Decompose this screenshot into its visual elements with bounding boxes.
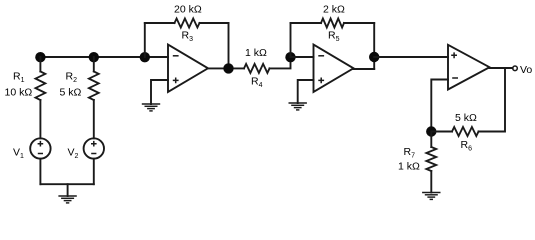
ground symbol sources <box>58 196 76 203</box>
resistor R2 <box>89 72 99 101</box>
resistor R5 <box>321 19 344 28</box>
output terminal circle <box>513 66 518 71</box>
op-amp U1 <box>168 45 208 93</box>
wire U3 output <box>490 67 513 69</box>
node B junction dot (top of R2) <box>89 52 99 62</box>
wire R1 top stub <box>39 57 41 72</box>
resistor R1 <box>36 72 46 101</box>
svg-text:R6: R6 <box>461 139 473 153</box>
junction dot R6/R7 node <box>426 126 436 136</box>
wire U1 feedback top right segment <box>200 22 229 24</box>
wire U2 output <box>354 68 375 70</box>
voltage source V2 <box>84 138 104 158</box>
wire V1 bottom to ground rail <box>39 159 41 185</box>
svg-text:5 kΩ: 5 kΩ <box>60 87 82 99</box>
svg-text:R5: R5 <box>328 30 340 44</box>
wire U3 inverting input <box>431 80 448 132</box>
svg-text:10 kΩ: 10 kΩ <box>5 87 33 99</box>
V1 minus sign <box>38 153 43 155</box>
wire U1 feedback left vertical <box>144 23 146 57</box>
wire U1 feedback top left segment <box>145 22 175 24</box>
resistor R7 <box>426 147 436 171</box>
U1 non-inverting input plus sign <box>173 78 179 84</box>
U3 non-inverting input plus sign <box>451 52 457 58</box>
ground symbol U2 <box>289 103 307 110</box>
wire R7 bottom to ground <box>430 171 432 193</box>
svg-text:Vo: Vo <box>520 64 532 76</box>
svg-text:5 kΩ: 5 kΩ <box>455 112 477 124</box>
V2 minus sign <box>91 153 96 155</box>
resistor R3 <box>175 19 200 28</box>
svg-text:R2: R2 <box>66 71 78 85</box>
wire R4 to U2 input corner <box>270 57 291 68</box>
wire U2 inverting input <box>291 56 314 58</box>
resistor R6 <box>452 127 479 136</box>
svg-text:R7: R7 <box>404 146 416 160</box>
ground symbol U1 <box>142 104 160 111</box>
op-amp U3 <box>448 45 490 90</box>
svg-text:1 kΩ: 1 kΩ <box>245 47 267 59</box>
U2 non-inverting input plus sign <box>318 78 324 84</box>
svg-text:2 kΩ: 2 kΩ <box>323 4 345 16</box>
wire U1 non-inverting input <box>151 80 168 104</box>
junction dot U2 output node <box>369 52 379 62</box>
junction dot feedback tap on U1 input rail <box>140 52 150 62</box>
wire source ground rail <box>40 183 93 185</box>
wire R1 bottom to V1 <box>39 100 41 138</box>
svg-text:V1: V1 <box>13 147 24 161</box>
ground symbol R7 <box>422 193 440 200</box>
wire U2 feedback left vertical <box>290 23 292 57</box>
op-amp U2 <box>314 45 354 93</box>
wire R2 top stub <box>93 57 95 72</box>
wire U2 output node to U3 non-inverting input <box>374 56 448 58</box>
U1 inverting input minus sign <box>173 55 179 57</box>
resistor R4 <box>244 64 270 73</box>
U2 inverting input minus sign <box>318 55 324 57</box>
wire R7 top stub <box>430 132 432 148</box>
svg-text:R4: R4 <box>251 75 263 89</box>
wire V2 bottom to ground rail <box>93 159 95 185</box>
wire U1 output to R4 <box>208 67 244 69</box>
svg-text:R1: R1 <box>13 71 25 85</box>
wire R6 left to node <box>431 131 452 133</box>
wire U1 feedback right vertical <box>228 23 230 68</box>
wire input rail node A to op-amp U1 inverting input <box>40 56 168 58</box>
svg-text:20 kΩ: 20 kΩ <box>174 4 202 16</box>
wire U2 feedback top left segment <box>291 22 322 24</box>
V2 plus sign <box>91 141 97 147</box>
V1 plus sign <box>38 141 44 147</box>
svg-text:R3: R3 <box>182 30 194 44</box>
node A junction dot (top of R1) <box>35 52 45 62</box>
svg-text:V2: V2 <box>68 147 79 161</box>
wire U2 feedback right vertical to output <box>373 23 375 69</box>
voltage source V1 <box>30 138 50 158</box>
svg-text:1 kΩ: 1 kΩ <box>398 161 420 173</box>
wire ground stem sources <box>67 184 69 196</box>
wire U2 feedback top right segment <box>344 22 374 24</box>
wire U2 non-inverting input <box>298 80 314 103</box>
junction dot U1 output feedback tap <box>223 63 233 73</box>
wire R2 bottom to V2 <box>93 100 95 138</box>
wire U3 output down to R6 <box>479 68 506 132</box>
U3 inverting input minus sign <box>452 77 458 79</box>
junction dot U2 inverting input node <box>285 52 295 62</box>
